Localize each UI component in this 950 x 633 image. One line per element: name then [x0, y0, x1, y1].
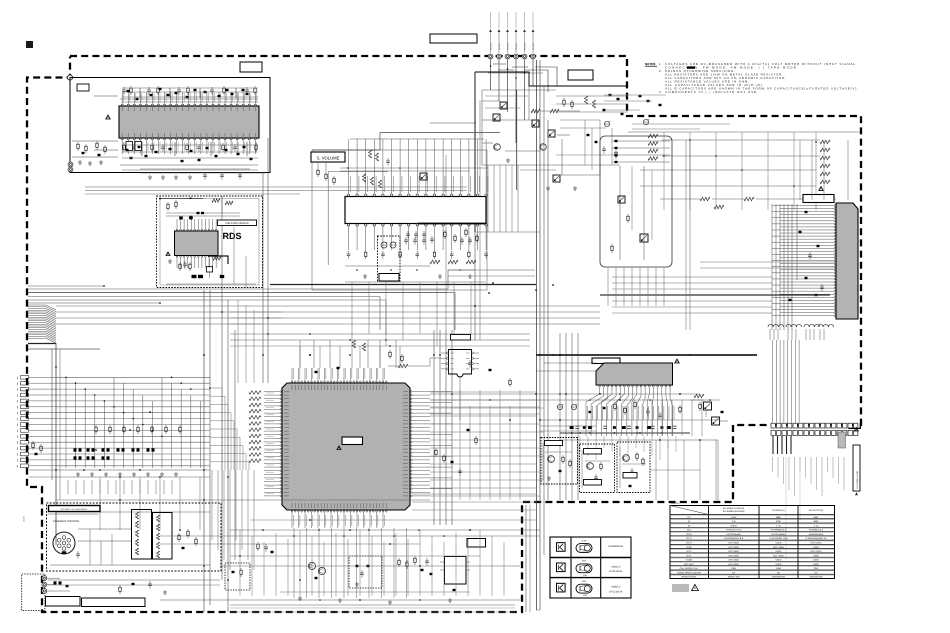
pin ticks left of CN151: [17, 377, 19, 380]
svg-text:NOTES: NOTES: [645, 62, 655, 66]
legend transistor stadium row 1: [576, 544, 592, 553]
svg-text:FM ANT: FM ANT: [532, 42, 535, 50]
wire: connector interlinks: [493, 63, 506, 65]
resistor cluster below IC1: [123, 143, 125, 145]
wire: section E verticals to bottom: [487, 165, 489, 232]
wire: main horizontal bus (thick): [536, 354, 757, 356]
ecap C316: [390, 242, 396, 248]
ground RDS: [169, 259, 171, 261]
wire: left mesh bottom rails: [29, 469, 210, 471]
svg-text:G.6A 6(6A65) 1/6-B: G.6A 6(6A65) 1/6-B: [769, 537, 788, 540]
wire: volume left link: [328, 171, 388, 173]
DIN connector J701: [53, 532, 75, 554]
connector top stubs: [490, 12, 492, 28]
svg-text:NOT USED: NOT USED: [811, 542, 822, 545]
RDS dotted box: [157, 196, 263, 288]
svg-text:KD-SH99R (EU/E/EN): KD-SH99R (EU/E/EN): [723, 510, 745, 513]
svg-text:IC101: IC101: [686, 533, 692, 536]
components above IC201: [167, 202, 169, 204]
connector lead labels (vertical): [490, 32, 492, 53]
svg-text:IC171: IC171: [686, 537, 692, 540]
IC301 pins top: [347, 194, 349, 196]
svg-text:GTF5N117/V2-A: GTF5N117/V2-A: [726, 529, 742, 532]
warning triangle near CN504: [854, 428, 858, 431]
wire: section E extra horizontals: [485, 95, 528, 97]
wire: solid verticals near dashed left border of x522: [525, 505, 527, 612]
coil L502: [786, 324, 791, 327]
series resistors row y111: [531, 109, 540, 113]
svg-text:USED: USED: [813, 563, 819, 566]
svg-text:NOT USED: NOT USED: [728, 550, 739, 553]
warning triangle RDS: [166, 252, 170, 255]
label bar changer control: [49, 506, 101, 512]
wire: IC601 bottom pin leads: [291, 512, 293, 528]
svg-text:0.8W: 0.8W: [776, 567, 781, 570]
IC301 pins bottom: [347, 224, 349, 226]
switch S5: [553, 175, 560, 182]
wire: vertical trunk x204 group: [203, 290, 205, 612]
svg-text:MCF311(6A65): MCF311(6A65): [771, 533, 785, 536]
label box top-center: [430, 34, 477, 43]
legend symbol square row 1: [557, 543, 566, 552]
wire: tuner box drop lines: [262, 173, 264, 197]
diode pair in power box: [54, 581, 57, 584]
resistor mid cluster: [700, 197, 710, 201]
switch S802: [712, 417, 720, 425]
capacitor/resistor cluster above IC1: [123, 87, 125, 90]
components below IC301: [348, 251, 350, 254]
wire: horizontals QFP to trunk: [412, 493, 536, 495]
wire: rails above IC801: [536, 354, 757, 356]
wire: RDS verticals: [233, 227, 235, 284]
component cluster bc4: [398, 558, 400, 560]
wire: left fan bundle: [28, 304, 46, 306]
wire: thick mid rail y285: [270, 284, 536, 286]
wire: bottom long rails to table area: [536, 609, 540, 611]
resistor in FE box: [611, 244, 613, 246]
connector CN101 plug row: [488, 54, 493, 59]
component blobs above IC1: [167, 94, 170, 96]
wire: rails below IC1: [122, 144, 258, 146]
wire: FE box verticals: [619, 166, 621, 260]
label box IC501: [803, 195, 834, 203]
svg-text:DTA144E-B: DTA144E-B: [610, 570, 623, 573]
wire: bottom center extra verticals: [239, 530, 241, 596]
resistor zigzag cluster above IC301: [368, 150, 371, 158]
wire: coil drops: [769, 329, 771, 340]
wire: rails above IC601: [230, 333, 530, 335]
model comparison table: [670, 506, 835, 579]
IC601 pins right: [411, 391, 413, 393]
wire: trunk x434 group: [433, 330, 435, 525]
wire: tuner internal rails: [94, 95, 118, 97]
ecap C108: [604, 121, 609, 126]
dashed box battery backup: [378, 236, 401, 281]
wire: volume top lead bus: [350, 138, 484, 140]
resistor ladder right column: [820, 140, 830, 144]
diode pair row 2: [74, 456, 77, 459]
wire: CD section links: [78, 528, 131, 530]
wire: IC601 left pin leads: [264, 391, 280, 393]
svg-text:DC: DC: [814, 571, 818, 574]
svg-text:15R: 15R: [583, 574, 587, 577]
wire: rails y270: [448, 269, 535, 271]
wire: rails right of IC601: [430, 391, 536, 393]
svg-text:SAH347-001: SAH347-001: [728, 576, 741, 579]
wire: S801 links: [690, 399, 704, 401]
label box in dashed area: [379, 274, 399, 282]
junction dots mid-right: [559, 393, 561, 395]
wire: FE extra verticals: [631, 166, 633, 230]
svg-text:CN501: CN501: [23, 515, 26, 522]
wire: IC801 pin fan-out: [586, 387, 600, 436]
wire: volume top rails: [340, 167, 488, 169]
component blobs below IC1: [130, 157, 133, 159]
wire: rails below tuner section: [85, 186, 467, 188]
dashed box X601 area: [349, 556, 382, 588]
wire: CN504 feeds from above: [772, 340, 774, 423]
wire: QFP-left mesh corners: [210, 388, 222, 470]
ground/caps row below tuner box: [149, 175, 151, 177]
svg-text:DTC144E-B: DTC144E-B: [609, 590, 622, 593]
wire: FE box bottom verticals: [607, 267, 609, 306]
label box on dashed border: [240, 62, 262, 72]
component extras section E: [587, 134, 590, 136]
transistor Q606: [318, 567, 325, 574]
ground symbols section E: [507, 158, 509, 160]
coil L504: [818, 324, 823, 327]
transistor Q102: [540, 144, 547, 151]
components below IC201: [179, 262, 181, 264]
label box CN1: [77, 84, 89, 91]
warning triangle near IC1: [106, 115, 111, 119]
svg-text:680Y: 680Y: [814, 516, 819, 519]
legend symbol square row 2: [557, 563, 566, 572]
wire: feeds to header from left: [540, 425, 596, 427]
IC501 pin column: [834, 205, 836, 207]
wire: ticks below rail: [571, 436, 573, 448]
svg-text:GTF606E/V2-A: GTF606E/V2-A: [809, 529, 824, 532]
wire: component row rail: [560, 432, 690, 434]
junction dots bottom center: [293, 535, 295, 537]
wire: right vertical bus: [771, 204, 773, 330]
switch S2: [493, 114, 500, 121]
power dotted box far bottom-left: [22, 574, 45, 611]
wire: CN504 drops below: [772, 436, 774, 454]
resistor column left of IC601: [249, 391, 261, 395]
connector CN151 pin boxes (left column): [21, 376, 29, 380]
coil L503: [804, 324, 809, 327]
svg-text:S. VOLUME: S. VOLUME: [317, 156, 340, 161]
svg-text:USED: USED: [776, 542, 782, 545]
wire: mid-right verticals: [651, 400, 653, 436]
resistors right of IC702: [178, 533, 180, 535]
svg-text:UN4211/: UN4211/: [611, 565, 621, 568]
transistor Q605: [308, 562, 315, 569]
wire: rail above IC1: [120, 98, 258, 100]
switch S801: [704, 402, 712, 410]
svg-text:NOT USED: NOT USED: [773, 554, 784, 557]
switch S4: [548, 130, 555, 137]
wire: mid bus bends: [448, 270, 475, 289]
registration mark (filled square): [26, 41, 33, 48]
svg-text:SAH5460-002: SAH5460-002: [809, 576, 823, 579]
svg-text:CHANGER CONTROL: CHANGER CONTROL: [53, 520, 80, 523]
resistor ladder left column: [648, 134, 658, 138]
switch S8 in FE box: [618, 196, 625, 203]
component cluster bc1: [257, 542, 259, 544]
diode pair row 1: [74, 448, 77, 451]
wire: volume to rails drops: [351, 282, 353, 340]
resistor column volume right: [444, 230, 446, 232]
wire: verticals above IC601: [299, 346, 301, 368]
IC602 EEPROM (8-pin DIP): [449, 350, 472, 378]
svg-text:FM ANT: FM ANT: [515, 42, 518, 50]
left resistors volume: [317, 168, 319, 170]
svg-text:4759C: 4759C: [731, 516, 738, 519]
CD changer dotted box: [47, 503, 222, 571]
wire: rail below IC1: [120, 164, 258, 166]
ground symbols below IC301: [364, 274, 366, 276]
switch S1: [500, 102, 507, 109]
ground row bottom center: [299, 596, 301, 598]
svg-text:USED: USED: [776, 559, 782, 562]
svg-text:SAH5460-002: SAH5460-002: [772, 576, 786, 579]
svg-text:FM ANT: FM ANT: [524, 42, 527, 50]
svg-text:MAG318(1A64): MAG318(1A64): [809, 533, 824, 536]
svg-text:FM ANT: FM ANT: [507, 42, 510, 50]
junction dots scattered: [103, 285, 105, 287]
svg-text:USED: USED: [776, 563, 782, 566]
IC702 driver (DIP outline): [153, 513, 173, 560]
wire: RDS rails: [166, 212, 240, 214]
wire: left thick stub: [28, 343, 56, 345]
svg-text:USED: USED: [776, 550, 782, 553]
svg-text:USED: USED: [813, 559, 819, 562]
component row below IC801: [570, 426, 574, 429]
wire: plug routing right: [535, 67, 557, 86]
capacitor group below IC301 mid: [407, 231, 409, 234]
svg-text:CN7 DIGIT 7 SFT ADPTR/CDC: CN7 DIGIT 7 SFT ADPTR/CDC: [61, 508, 88, 511]
IC301 electronic volume (body): [345, 197, 486, 224]
label box IC602 EEPROM: [451, 335, 471, 341]
component blobs mid-right: [589, 411, 592, 413]
node: board outline junction circle: [67, 75, 72, 80]
tuner section outline box: [70, 78, 270, 173]
svg-text:NOT USED: NOT USED: [728, 563, 739, 566]
pin name ticks above IC301: [349, 176, 351, 192]
svg-text:RDS: RDS: [223, 231, 242, 241]
wire: verticals right of IC601: [459, 390, 461, 500]
resistor row left mesh: [95, 425, 97, 427]
wire: right area verticals upper: [799, 140, 801, 200]
components above IC601: [315, 371, 318, 373]
IC601 pins bottom: [291, 511, 293, 513]
svg-text:NOT USED: NOT USED: [728, 559, 739, 562]
svg-text:FOR K2/BD VERSION: FOR K2/BD VERSION: [225, 222, 248, 225]
IC301 bottom edge thick segment: [418, 223, 486, 225]
wire: trunks x238-254: [237, 300, 239, 383]
gray connector end CN504: [838, 432, 846, 448]
crystal X201: [207, 267, 213, 273]
svg-text:RDS UNIT: RDS UNIT: [684, 563, 695, 566]
wire: mid-right rails: [430, 393, 700, 395]
pin number ticks inside IC601: [291, 385, 293, 390]
corner piece near CN504: [849, 423, 861, 428]
switch S7 in FE box: [640, 234, 648, 242]
svg-text:MTB4000C-B: MTB4000C-B: [609, 545, 624, 548]
capacitor row right of dashed box: [405, 237, 407, 240]
svg-text:0.8W: 0.8W: [731, 567, 736, 570]
svg-text:KD-SH77R (E): KD-SH77R (E): [809, 509, 824, 512]
label box bottom-left B: [82, 598, 146, 607]
wire: blob links section E: [604, 94, 666, 96]
label box inside IC601: [342, 437, 363, 445]
wire: short rails left of QFP top: [230, 311, 282, 313]
wire: left mesh horizontals: [56, 376, 210, 378]
wire: right area horizontals upper: [700, 261, 836, 263]
svg-text:MODEL PREFIX MECHA: MODEL PREFIX MECHA: [677, 571, 701, 574]
small dashed box near x230: [225, 563, 250, 590]
vertical label box right: [853, 445, 860, 491]
component cluster bottom-left: [119, 585, 121, 587]
IF filter boxes below IC1: [126, 142, 133, 151]
wire: volume bottom rail: [345, 265, 430, 267]
svg-text:KD-SH55 (J): KD-SH55 (J): [772, 509, 785, 512]
wire: feeds into right bus long: [612, 276, 690, 278]
plug P1: [42, 576, 47, 581]
svg-text:NOT USED: NOT USED: [728, 542, 739, 545]
svg-text:R712: R712: [687, 550, 693, 553]
junction dots near EEPROM: [488, 292, 490, 294]
wire: power box links: [47, 577, 60, 579]
svg-text:R711: R711: [687, 554, 693, 557]
wire: mid bus group B (to right): [56, 305, 600, 307]
transistor legend table: [550, 537, 631, 598]
junction dots volume: [356, 269, 358, 271]
ecap C109: [643, 119, 648, 124]
svg-text:NOT USED: NOT USED: [728, 546, 739, 549]
label box bottom-left A: [46, 597, 81, 607]
resistor zigzags RDS top: [212, 199, 220, 203]
label box IC801: [592, 358, 620, 364]
wire: section E bottom-left edge: [430, 122, 476, 124]
wire: FE box rails: [612, 140, 670, 142]
wire: RDS top rail: [160, 198, 203, 200]
wire: bottom-left rails: [48, 579, 220, 581]
IC1 pin row bottom: [121, 138, 123, 140]
RDS inner board box: [160, 199, 259, 286]
wire: section E to FE links: [556, 95, 628, 97]
IC1 pin row top: [121, 104, 123, 106]
dashed box audio out C: [617, 442, 650, 493]
wire: mid bus group A: [28, 285, 104, 287]
plug P2: [42, 582, 47, 587]
svg-text:3. COMPONENTS IN ( ) INDICATE: 3. COMPONENTS IN ( ) INDICATE NOT USE.: [659, 90, 758, 94]
label box section E: [568, 70, 593, 80]
IC201 pins: [176, 229, 178, 231]
IC801 pins bottom: [599, 385, 601, 387]
transistor Q101: [494, 144, 501, 151]
svg-text:G.6AC6(6A65) 1/6-B: G.6AC6(6A65) 1/6-B: [724, 537, 744, 540]
IC501 display driver (gray vertical body): [836, 203, 858, 319]
component blobs section E: [609, 94, 612, 96]
left small components: [32, 441, 34, 443]
IC604 reset (DIP outline): [445, 557, 467, 585]
svg-text:A 7R: A 7R: [582, 539, 587, 542]
plug P3: [42, 589, 47, 594]
resistor R801: [694, 394, 704, 398]
svg-text:KD-SH9101 (U/S/UH): KD-SH9101 (U/S/UH): [723, 507, 744, 510]
label box bc: [467, 539, 486, 548]
wire: QFP bottom drop columns: [293, 528, 295, 598]
wire: section E links: [482, 89, 556, 91]
svg-text:UN4111/: UN4111/: [611, 586, 620, 589]
wire: left vertical trunks: [55, 343, 57, 545]
pin ticks outside IC601 bottom: [292, 515, 294, 526]
wire: EEPROM links: [459, 376, 461, 420]
svg-text:R770: R770: [687, 542, 693, 545]
tick labels below mesh: [67, 480, 69, 494]
ground row left mesh: [77, 472, 79, 474]
gray legend swatch: [672, 584, 689, 592]
ecap C315: [381, 242, 387, 248]
resistor cluster section E: [563, 98, 565, 100]
legend transistor stadium row 2: [576, 564, 592, 573]
junction dots main buses: [203, 469, 205, 471]
wire: section E extra verticals: [584, 120, 586, 165]
resistor zigzag below IC201: [213, 257, 221, 261]
wire: left-mesh corner drops: [211, 470, 213, 540]
pin ticks IC801: [586, 406, 588, 420]
wire: IC601 right pin leads: [412, 391, 452, 393]
wire: thick L below IC201: [208, 256, 228, 264]
label box FOR K2/BD VERSION: [218, 220, 257, 226]
coil L501: [768, 324, 773, 327]
dashed box audio out A: [541, 438, 578, 485]
connector CN504 header row (right of border): [771, 423, 775, 428]
wire: bottom center extra rails: [220, 565, 520, 567]
wire: verticals to CD section: [99, 477, 101, 530]
label box S.VOLUME: [311, 152, 345, 162]
pin ticks outside IC601 top: [292, 368, 294, 379]
IC801 sound processor (gray body): [596, 363, 673, 385]
svg-text:CN502: CN502: [686, 559, 693, 562]
wire: left mesh verticals: [65, 377, 67, 468]
left component cluster in tuner box: [77, 142, 79, 144]
wire: vertical trunk x536 group: [536, 60, 538, 610]
svg-text:880K: 880K: [776, 516, 781, 519]
dashed main board outline: [27, 56, 861, 612]
warning triangle inside IC601: [337, 446, 341, 449]
resistor zigzags volume right: [430, 260, 440, 264]
warning triangle legend: [692, 585, 699, 591]
svg-text:G.6A(6A65)(6A65) 1/6: G.6A(6A65)(6A65) 1/6: [806, 537, 828, 540]
IC601 pins left: [280, 391, 282, 393]
svg-text:0.001u: 0.001u: [731, 524, 738, 527]
front-end block rounded box: [600, 136, 672, 267]
svg-text:TO POWER CONN: TO POWER CONN: [856, 471, 859, 489]
wire: below tuner box: [140, 172, 265, 174]
svg-text:870K: 870K: [776, 520, 781, 523]
svg-text:POWER CORD: POWER CORD: [682, 576, 697, 579]
wire: trunk x516 down: [516, 90, 518, 190]
svg-text:FM ANT: FM ANT: [490, 42, 493, 50]
wire: trunk x560 group: [559, 333, 561, 500]
svg-text:MCF311(6A65): MCF311(6A65): [727, 533, 741, 536]
IC601 system microcomputer (gray QFP body): [282, 383, 410, 510]
svg-text:NOT USED: NOT USED: [811, 550, 822, 553]
